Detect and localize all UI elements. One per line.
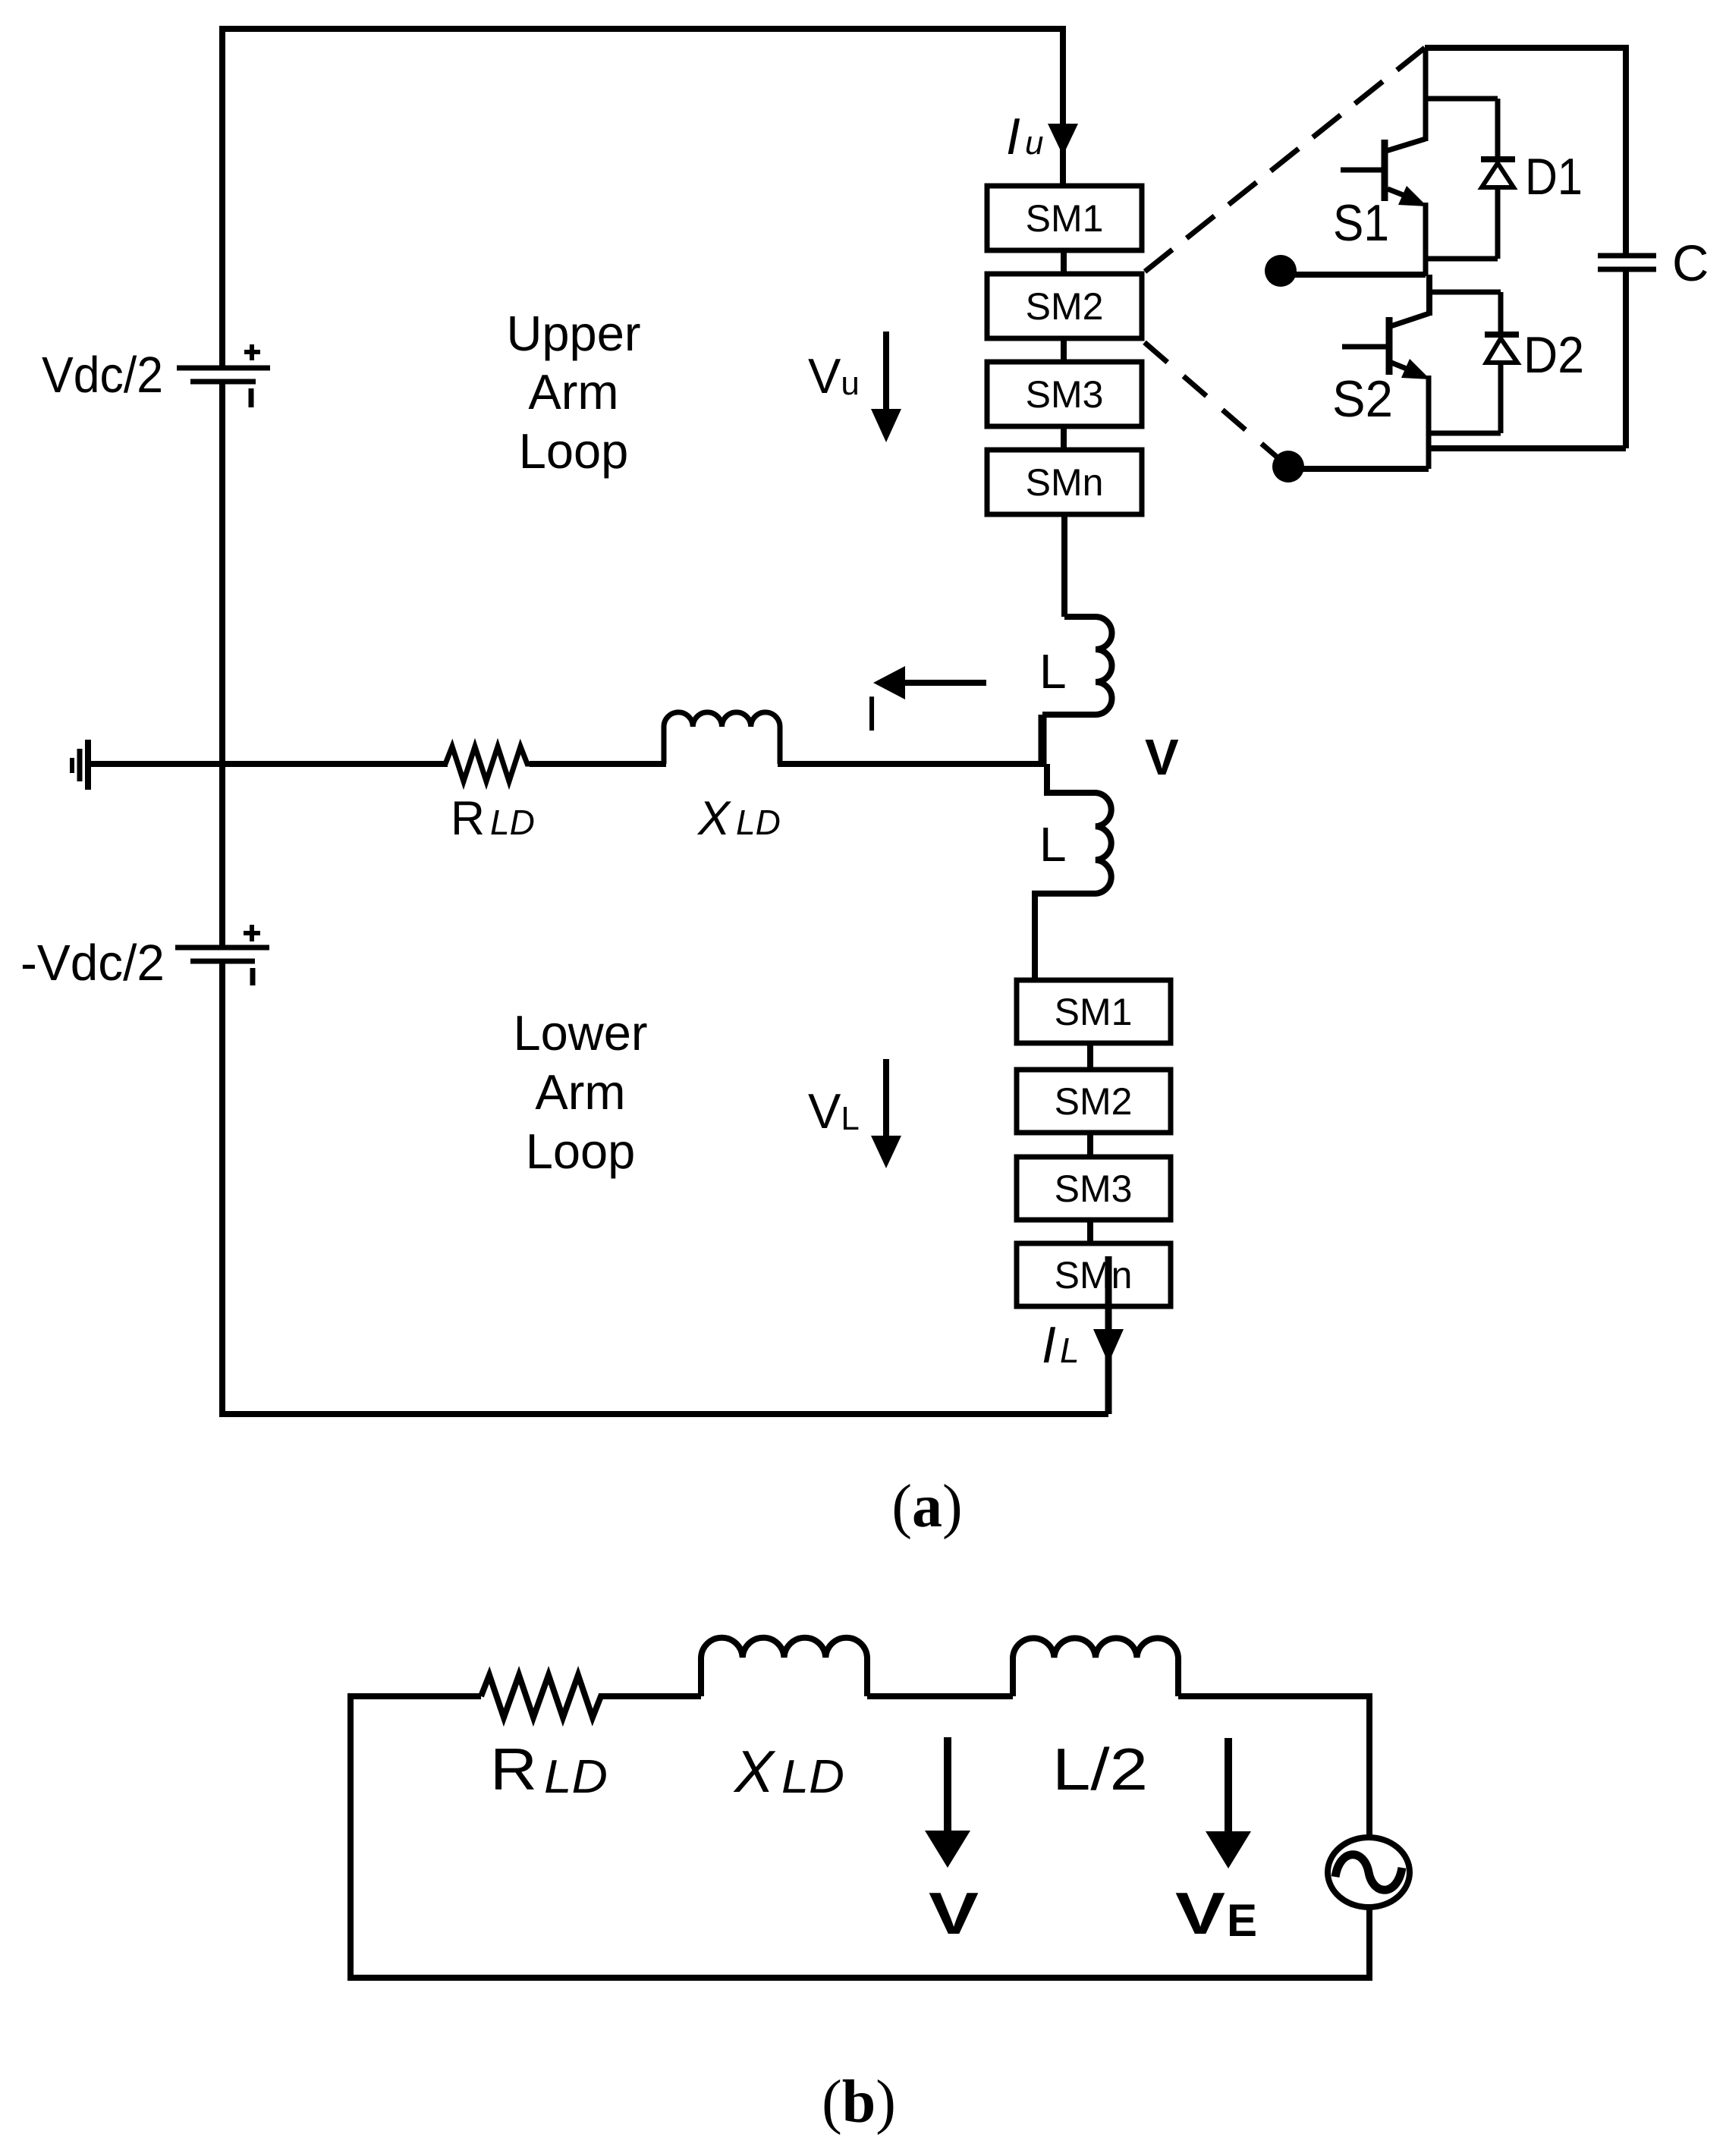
submodule SM2 (upper) xyxy=(987,274,1142,338)
inductor XLD (b) xyxy=(701,1638,867,1696)
svg-text:I: I xyxy=(865,686,879,741)
wire bottom of main loop xyxy=(219,1411,1108,1417)
svg-text:SM3: SM3 xyxy=(1026,373,1104,416)
wire SM2-SM3 xyxy=(1061,338,1067,362)
wire top of main loop xyxy=(219,26,1066,32)
wire detail top xyxy=(1425,45,1626,51)
svg-text:SM2: SM2 xyxy=(1026,285,1104,328)
inductor L (lower arm) xyxy=(1035,764,1111,980)
svg-text:L: L xyxy=(1039,644,1067,699)
wire SM2-SM3 lower xyxy=(1087,1133,1093,1157)
resistor RLD xyxy=(445,746,532,781)
svg-text:Arm: Arm xyxy=(535,1064,625,1120)
arrow IL xyxy=(1093,1329,1124,1363)
arrow VL xyxy=(883,1059,889,1136)
svg-text:V: V xyxy=(1175,1880,1225,1947)
svg-text:(b): (b) xyxy=(822,2069,896,2136)
wire node upper xyxy=(1281,272,1426,278)
dashed pointer upper xyxy=(1145,48,1425,272)
node dot upper xyxy=(1265,255,1297,287)
wire left vertical lower segment xyxy=(219,963,225,1417)
wire SM1-SM2 lower xyxy=(1087,1043,1093,1070)
wire upper arm drop (Iu) xyxy=(1060,26,1066,186)
submodule SMn (upper) xyxy=(987,450,1142,514)
transistor S1 xyxy=(1341,48,1426,276)
svg-text:SMn: SMn xyxy=(1055,1254,1133,1296)
svg-text:L/2: L/2 xyxy=(1052,1736,1148,1802)
inductor XLD xyxy=(664,712,780,764)
svg-text:Lower: Lower xyxy=(513,1005,647,1061)
arrow Vu xyxy=(883,332,889,410)
submodule SM3 (upper) xyxy=(987,362,1142,426)
ground xyxy=(72,740,88,790)
wire SMn to inductor xyxy=(1061,514,1067,617)
svg-text:D1: D1 xyxy=(1525,148,1583,206)
svg-text:I: I xyxy=(1006,108,1020,165)
wire inductor to node V xyxy=(1039,715,1047,767)
wire IL drop xyxy=(1105,1256,1112,1414)
submodule SM2 (lower) xyxy=(1017,1070,1171,1133)
svg-text:SM3: SM3 xyxy=(1055,1168,1133,1210)
wire SM3-SMn lower xyxy=(1087,1220,1093,1243)
inductor L (upper arm) xyxy=(1042,617,1112,715)
arrow V (b) xyxy=(944,1737,951,1831)
svg-text:S1: S1 xyxy=(1333,194,1389,252)
S2 emitter arrowhead xyxy=(1401,359,1430,379)
svg-text:SM1: SM1 xyxy=(1055,991,1133,1033)
svg-text:E: E xyxy=(1227,1895,1257,1946)
wire node lower xyxy=(1288,466,1429,472)
diode D2 xyxy=(1429,292,1519,433)
wire load horizontal xyxy=(88,761,448,767)
S1 emitter arrowhead xyxy=(1398,186,1427,206)
submodule SM3 (lower) xyxy=(1017,1157,1171,1220)
wire detail right upper xyxy=(1623,45,1629,256)
dashed pointer lower xyxy=(1143,341,1284,464)
transistor S2 xyxy=(1342,313,1429,469)
ac source sine xyxy=(1335,1855,1402,1890)
svg-text:Loop: Loop xyxy=(519,423,629,479)
svg-text:V: V xyxy=(929,1880,979,1947)
svg-text:u: u xyxy=(1025,124,1043,162)
ac source xyxy=(1328,1837,1410,1907)
svg-text:-Vdc/2: -Vdc/2 xyxy=(20,935,165,992)
svg-text:L: L xyxy=(1060,1331,1080,1370)
diode D1 xyxy=(1426,99,1515,259)
wire detail right lower xyxy=(1623,269,1629,448)
svg-text:D2: D2 xyxy=(1523,326,1584,384)
wire SM3-SMn xyxy=(1061,426,1067,450)
submodule SMn (lower) xyxy=(1017,1243,1171,1306)
svg-text:SM2: SM2 xyxy=(1055,1080,1133,1123)
svg-text:SMn: SMn xyxy=(1026,461,1104,504)
submodule SM1 (upper) xyxy=(987,186,1142,250)
svg-text:L: L xyxy=(1039,817,1067,872)
arrow I (load current) xyxy=(880,680,986,686)
wire detail bottom xyxy=(1429,445,1626,451)
wire SM1-SM2 xyxy=(1061,250,1067,274)
circuit (b) loop xyxy=(351,1696,1369,1978)
svg-text:Vdc/2: Vdc/2 xyxy=(42,347,163,404)
wire left vertical upper segment xyxy=(219,29,225,366)
svg-text:I: I xyxy=(1042,1316,1056,1374)
wire left vertical middle segment xyxy=(219,384,225,945)
capacitor C xyxy=(1598,256,1656,269)
svg-text:Upper: Upper xyxy=(506,306,640,361)
battery -Vdc/2 xyxy=(175,925,269,985)
resistor RLD (b) xyxy=(481,1675,608,1718)
arrow Iu xyxy=(1048,124,1078,156)
svg-text:Arm: Arm xyxy=(528,364,618,420)
svg-text:(a): (a) xyxy=(891,1473,962,1540)
arrow VE (b) xyxy=(1225,1738,1232,1832)
wire S1 emitter to S2 collector xyxy=(1426,275,1432,316)
svg-text:Loop: Loop xyxy=(526,1124,636,1179)
svg-text:S2: S2 xyxy=(1332,370,1393,428)
svg-text:SM1: SM1 xyxy=(1026,197,1104,240)
inductor L/2 (b) xyxy=(1013,1638,1178,1696)
node dot lower xyxy=(1272,451,1304,482)
svg-text:C: C xyxy=(1672,235,1709,292)
submodule SM1 (lower) xyxy=(1017,980,1171,1043)
svg-text:V: V xyxy=(1145,729,1179,786)
battery Vdc/2 xyxy=(177,344,270,407)
